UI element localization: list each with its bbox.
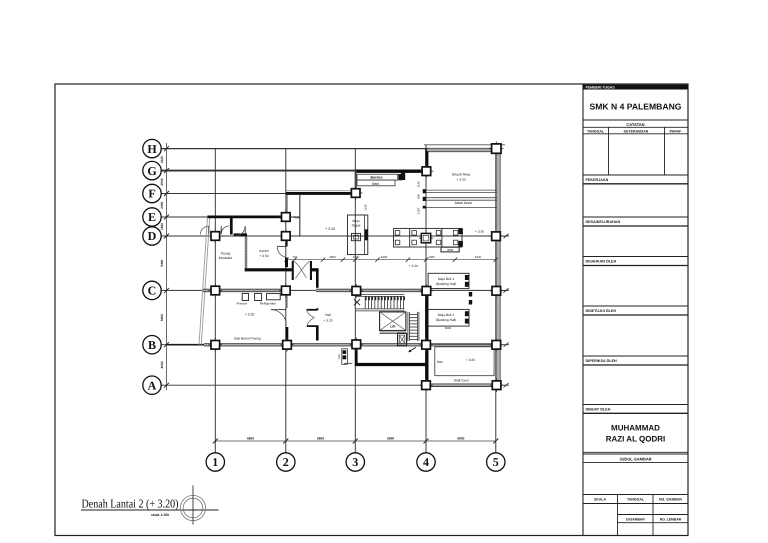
svg-text:TANGGAL: TANGGAL [627, 497, 645, 501]
wall B row band [204, 343, 426, 345]
svg-text:Meja Beli 2: Meja Beli 2 [438, 313, 454, 317]
svg-text:JUDUL GAMBAR: JUDUL GAMBAR [619, 456, 651, 461]
svg-text:+ 3.30: + 3.30 [475, 230, 484, 234]
svg-text:Jalan Area: Jalan Area [454, 201, 472, 205]
svg-text:G: G [147, 164, 156, 178]
svg-text:Bordes: Bordes [370, 176, 382, 180]
svg-text:Freezer: Freezer [237, 302, 248, 306]
wall kantor bottom [245, 268, 292, 271]
svg-text:+ 3.20: + 3.20 [245, 313, 255, 317]
column B2 [280, 338, 294, 352]
lift shaft [380, 312, 406, 331]
wall col3 G-F stub [355, 171, 357, 190]
stair flight upper rails [356, 294, 405, 296]
column A4 [419, 378, 433, 392]
wall A row band [431, 383, 492, 385]
svg-text:Lift: Lift [390, 325, 396, 329]
svg-text:+ 3.20: + 3.20 [456, 178, 465, 182]
wall E row Ruang Inkubator top [208, 216, 282, 219]
wall vertical inkubator [230, 217, 233, 235]
svg-text:8000: 8000 [372, 182, 379, 186]
right edge ticks rows [504, 234, 509, 239]
column C1 [209, 284, 223, 298]
wall x317 segments [316, 269, 319, 288]
hatched wall x246 kantor left [245, 236, 248, 271]
svg-text:DIGAMBAR: DIGAMBAR [626, 518, 645, 522]
title block header bar PEMBERI TUGAS [583, 85, 688, 90]
wall right of double door [312, 268, 319, 271]
svg-text:Inkubator: Inkubator [219, 256, 234, 260]
door arc kantor [277, 246, 286, 257]
svg-text:D: D [148, 229, 157, 243]
svg-text:6800: 6800 [317, 436, 324, 440]
stair flight upper treads [364, 296, 366, 309]
snack area top wall [424, 144, 505, 146]
svg-text:A: A [148, 378, 157, 392]
lift bottom hatched strip [380, 330, 406, 332]
svg-text:960: 960 [417, 194, 421, 199]
column D1 [209, 229, 223, 243]
door arc inkubator 2 [236, 226, 245, 235]
bordes black stubs [398, 174, 402, 180]
column C5 [490, 284, 504, 298]
column D4 over desk [419, 231, 433, 245]
meja beli 2 desk [428, 309, 469, 326]
column B5 [490, 338, 504, 352]
svg-text:SMK N 4 PALEMBANG: SMK N 4 PALEMBANG [590, 102, 682, 112]
wall bottom middle y364.5 [356, 363, 428, 366]
svg-text:DIPERIKSA OLEH: DIPERIKSA OLEH [586, 359, 618, 363]
svg-text:PEMBERI TUGAS: PEMBERI TUGAS [586, 86, 616, 90]
svg-text:2500: 2500 [160, 178, 164, 185]
svg-text:1: 1 [212, 455, 218, 469]
svg-text:(Banking Hall): (Banking Hall) [436, 282, 457, 286]
column G4 [420, 164, 434, 178]
column B4 [419, 338, 433, 352]
wall col4 C-A thick [425, 290, 428, 385]
svg-text:DISAHKAN OLEH: DISAHKAN OLEH [586, 260, 617, 264]
svg-text:KETERANGAN: KETERANGAN [624, 129, 649, 133]
svg-text:PEKERJAAN: PEKERJAAN [586, 178, 609, 182]
svg-text:Bak: Bak [437, 360, 443, 364]
svg-text:3600: 3600 [447, 248, 454, 252]
column D2 [279, 229, 293, 243]
hall double door jambs [292, 261, 294, 280]
svg-text:4000: 4000 [160, 361, 164, 368]
svg-text:+ 3.50: + 3.50 [259, 254, 268, 258]
svg-text:5450: 5450 [160, 314, 164, 321]
column C4 [420, 284, 434, 298]
svg-text:Bak Cuci: Bak Cuci [454, 379, 469, 383]
wall G row [356, 169, 425, 172]
sheet border frame [55, 84, 688, 536]
svg-text:1.60: 1.60 [338, 354, 341, 360]
svg-text:6800: 6800 [247, 436, 254, 440]
grid column lines 1-5 [214, 149, 216, 453]
svg-text:+ 3.20: + 3.20 [325, 227, 335, 231]
svg-text:2350: 2350 [160, 201, 164, 208]
wall F row [286, 190, 356, 192]
left dimension line [166, 143, 168, 390]
small fixture left of col3 [342, 349, 348, 365]
bottom table column separators [617, 495, 619, 536]
chair marks between desks [469, 292, 472, 297]
grid circles letters [152, 148, 161, 150]
pantry appliance boxes [242, 293, 248, 300]
svg-text:Rapat: Rapat [352, 224, 361, 228]
svg-text:2800: 2800 [329, 255, 336, 259]
meja rapat table [348, 215, 368, 255]
svg-text:Denah Lantai 2 (+ 3.20): Denah Lantai 2 (+ 3.20) [82, 497, 179, 511]
dimension row between D and C [287, 259, 496, 261]
desk black chairs [458, 229, 463, 235]
small shaft box [398, 333, 407, 345]
title block left border [582, 84, 584, 536]
svg-text:NO. LEMBAR: NO. LEMBAR [660, 518, 682, 522]
wall B col4-col5 thin [431, 343, 492, 345]
svg-text:F: F [148, 187, 155, 201]
stair direction arrow [410, 347, 416, 351]
svg-text:Bak Beton Paving: Bak Beton Paving [234, 336, 260, 340]
catatan column separators [608, 127, 610, 175]
jalan area wall ticks [423, 189, 426, 193]
grid circles numbers [206, 453, 224, 471]
svg-text:TANGGAL: TANGGAL [587, 129, 605, 133]
svg-text:H: H [147, 142, 157, 156]
svg-text:Snack Area: Snack Area [452, 173, 470, 177]
column B3 [350, 338, 364, 352]
svg-text:1900: 1900 [160, 223, 164, 230]
datum circle symbol [180, 495, 205, 520]
svg-text:Hall: Hall [325, 313, 331, 317]
stair flight lower rails [407, 312, 409, 341]
svg-text:DESA/KELURAHAN: DESA/KELURAHAN [586, 220, 621, 224]
jalan area railing lines [426, 189, 497, 191]
hatched wall col2 below C [285, 295, 287, 308]
svg-text:Refrigerator: Refrigerator [260, 302, 276, 306]
svg-text:Rak: Rak [294, 216, 300, 220]
svg-text:2200: 2200 [381, 255, 388, 259]
svg-text:skala 1:100: skala 1:100 [151, 513, 169, 517]
title underline [81, 509, 219, 511]
svg-text:6800: 6800 [387, 436, 394, 440]
svg-text:1940: 1940 [475, 255, 482, 259]
column D5 [489, 229, 503, 243]
svg-text:1218: 1218 [363, 204, 367, 211]
svg-text:MUHAMMAD: MUHAMMAD [611, 424, 660, 433]
svg-text:NO. GAMBAR: NO. GAMBAR [659, 497, 682, 501]
door arc inkubator entry [200, 226, 208, 234]
column B1 [209, 338, 223, 352]
desks row D [394, 228, 462, 247]
svg-text:B: B [148, 338, 156, 352]
svg-text:1485: 1485 [428, 255, 435, 259]
column top5 [489, 141, 503, 155]
bak room walls [435, 347, 494, 376]
door arc inkubator 1 [221, 226, 229, 234]
site boundary slanted line [199, 216, 208, 345]
grid row lines H-A [161, 148, 426, 150]
column C3 [350, 284, 364, 298]
bottom dimension line [215, 440, 496, 442]
wall snack left vertical [425, 149, 428, 170]
column C2 [279, 284, 293, 298]
svg-text:5450: 5450 [160, 259, 164, 266]
door arc hall [307, 309, 318, 311]
wall col2 segments and kantor door [285, 240, 287, 246]
wall C row hatched left [203, 288, 283, 290]
svg-text:Ruang: Ruang [221, 252, 231, 256]
bordes stair box [357, 174, 398, 180]
svg-text:4: 4 [423, 455, 429, 469]
stair flight lower treads [409, 314, 417, 316]
svg-text:3600: 3600 [445, 326, 452, 330]
svg-text:3: 3 [352, 455, 358, 469]
wall C row hatched right [316, 288, 426, 290]
column E2 [279, 210, 293, 224]
svg-text:Meja: Meja [352, 219, 359, 223]
svg-text:+ 3.20: + 3.20 [466, 358, 475, 362]
right wall col5 [495, 145, 497, 385]
svg-text:1200: 1200 [353, 255, 360, 259]
svg-text:1187: 1187 [417, 208, 421, 215]
stair break mark [354, 299, 360, 305]
svg-text:+ 3.20: + 3.20 [323, 318, 332, 322]
svg-text:2: 2 [283, 455, 289, 469]
svg-text:700: 700 [293, 255, 298, 259]
svg-text:(Banking Hall): (Banking Hall) [436, 318, 457, 322]
svg-text:DISETUJUI OLEH: DISETUJUI OLEH [586, 309, 617, 313]
svg-text:6800: 6800 [457, 436, 464, 440]
column A5 [490, 378, 504, 392]
hatched wall col2 F-E [285, 195, 288, 213]
svg-text:SKALA: SKALA [594, 497, 607, 501]
svg-text:+ 3.20: + 3.20 [409, 264, 418, 268]
svg-text:PARAF: PARAF [670, 129, 683, 133]
wall D stub inkubator [234, 233, 247, 236]
svg-text:E: E [148, 210, 156, 224]
hall double door arcs [294, 261, 306, 278]
svg-text:Kantor: Kantor [259, 249, 270, 253]
wall col3 B stub [355, 347, 358, 366]
svg-text:1140: 1140 [417, 181, 421, 188]
svg-text:CATATAN: CATATAN [626, 122, 644, 127]
meja beli 1 desk [428, 273, 469, 288]
desk small annot box [441, 247, 459, 252]
bottom table mid lines [618, 514, 689, 516]
pantry door arc [271, 309, 287, 311]
svg-text:Meja Beli 1: Meja Beli 1 [438, 277, 454, 281]
wall rak right [299, 194, 301, 236]
svg-text:5: 5 [493, 455, 499, 469]
svg-text:RAZI AL QODRI: RAZI AL QODRI [606, 435, 666, 444]
column F3 [349, 186, 363, 200]
svg-text:DIBUAT OLEH: DIBUAT OLEH [586, 408, 611, 412]
svg-text:C: C [148, 284, 157, 298]
svg-text:2225: 2225 [160, 156, 164, 163]
